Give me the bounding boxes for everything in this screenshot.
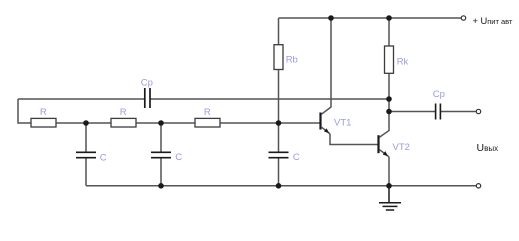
wire VT2 emitter down: [388, 157, 390, 186]
label C of C2: [175, 152, 182, 163]
svg-text:+ Uпит авт: + Uпит авт: [473, 16, 513, 26]
junction node C3 bottom: [276, 183, 282, 189]
junction node VT2 collector feedback: [386, 96, 392, 102]
svg-text:R: R: [40, 107, 47, 118]
transistor VT2: [379, 135, 390, 157]
wire C1 leads: [85, 123, 87, 186]
wire feedback top run left of Cp: [18, 98, 144, 100]
junction node C2 bottom: [158, 183, 164, 189]
svg-text:C: C: [293, 152, 300, 163]
svg-text:Uвых: Uвых: [477, 142, 499, 154]
wire Rb leads: [278, 18, 280, 123]
svg-text:Cp: Cp: [433, 89, 445, 100]
wire Cp2 to output terminal: [441, 111, 477, 113]
resistor Rb: [274, 45, 283, 70]
label C of C1: [100, 152, 107, 163]
junction node R2-C2: [158, 120, 164, 126]
label +Upit avt: [473, 16, 513, 26]
wire feedback left corner: [18, 99, 31, 123]
capacitor C2: [151, 152, 171, 157]
wire top rail: [279, 17, 462, 19]
ground: [379, 186, 401, 210]
label Cp of feedback capacitor: [141, 78, 153, 89]
wire feedback top run right of Cp: [151, 98, 390, 100]
terminal output bottom: [476, 184, 480, 188]
svg-text:R: R: [204, 107, 211, 118]
wire bottom rail: [86, 185, 476, 187]
svg-text:VT2: VT2: [393, 142, 410, 153]
label R of R3: [204, 107, 211, 118]
terminal output top: [476, 109, 480, 113]
label R of R1: [40, 107, 47, 118]
svg-text:C: C: [100, 152, 107, 163]
label Rk: [397, 56, 409, 67]
junction node VT2 collector output: [386, 109, 392, 115]
svg-text:VT1: VT1: [334, 118, 351, 129]
junction node R1-C1: [83, 120, 89, 126]
label Cp of output capacitor: [433, 89, 445, 100]
label R of R2: [120, 107, 127, 118]
capacitor C1: [76, 152, 96, 157]
wire C3 leads: [278, 123, 280, 186]
resistor R3: [195, 118, 220, 127]
wire base line R1-R2: [56, 122, 111, 124]
svg-text:R: R: [120, 107, 127, 118]
wire VT1 collector: [322, 18, 332, 114]
junction node R3-C3-Rb base: [276, 120, 282, 126]
junction node top rail VT1 collector: [328, 15, 334, 21]
svg-text:Rk: Rk: [397, 56, 409, 67]
junction node emitter ground: [386, 183, 392, 189]
label VT1: [334, 118, 351, 129]
wire output line to Cp2: [389, 111, 435, 113]
terminal +Upit: [461, 16, 465, 20]
label VT2: [393, 142, 410, 153]
svg-text:Rb: Rb: [286, 54, 298, 65]
wire VT2 collector: [380, 112, 390, 138]
resistor R1: [31, 118, 56, 127]
wire Rk leads: [388, 18, 390, 112]
junction node top rail Rk: [386, 15, 392, 21]
resistor R2: [111, 118, 136, 127]
svg-text:Cp: Cp: [141, 78, 153, 89]
resistor Rk: [385, 46, 394, 73]
svg-text:C: C: [175, 152, 182, 163]
capacitor Cp feedback: [145, 88, 150, 108]
wire C2 leads: [160, 123, 162, 186]
label Rb: [286, 54, 298, 65]
capacitor C3: [269, 152, 289, 157]
capacitor Cp output: [436, 104, 441, 120]
wire base line R3 to VT1 base: [220, 122, 320, 124]
label C of C3: [293, 152, 300, 163]
wire base line R2-R3: [136, 122, 195, 124]
wire VT1 emitter to VT2 base: [330, 134, 378, 145]
label Uvyh: [477, 142, 499, 154]
transistor VT1: [321, 113, 331, 134]
